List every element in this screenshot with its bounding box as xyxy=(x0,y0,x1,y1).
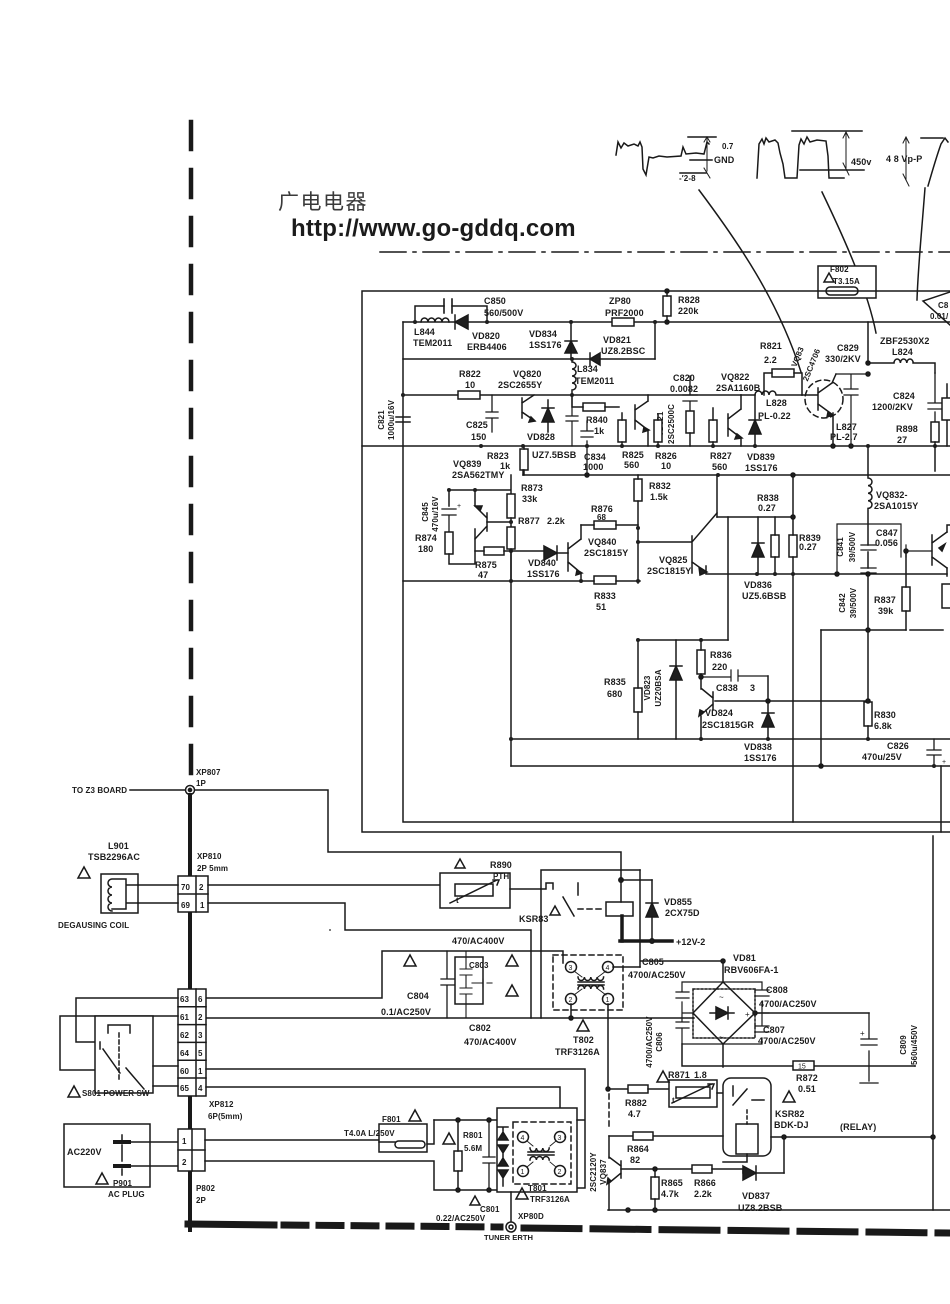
svg-text:P802: P802 xyxy=(196,1184,216,1193)
svg-text:TEM2011: TEM2011 xyxy=(575,376,614,386)
svg-text:1SS176: 1SS176 xyxy=(744,753,777,763)
svg-text:R882: R882 xyxy=(625,1098,647,1108)
capacitor C847 xyxy=(837,524,932,574)
resistor ZP80 xyxy=(612,318,634,326)
svg-text:0.27: 0.27 xyxy=(758,503,776,513)
svg-text:39k: 39k xyxy=(878,606,894,616)
svg-text:69: 69 xyxy=(181,901,191,910)
svg-text:470u/16V: 470u/16V xyxy=(431,496,440,532)
wire y=630 xyxy=(821,629,943,631)
svg-text:60: 60 xyxy=(180,1067,190,1076)
transistor VQ821 xyxy=(635,395,649,446)
svg-text:VQ837: VQ837 xyxy=(599,1159,608,1185)
svg-text:PL-2.7: PL-2.7 xyxy=(830,432,858,442)
svg-text:R871: R871 xyxy=(668,1070,690,1080)
svg-text:0.056: 0.056 xyxy=(875,538,898,548)
svg-text:ZBF2530X2: ZBF2530X2 xyxy=(880,336,929,346)
KSR83 contact xyxy=(541,883,578,895)
inductor L824 xyxy=(868,322,935,373)
svg-text:VQ822: VQ822 xyxy=(721,372,750,382)
svg-text:TUNER ERTH: TUNER ERTH xyxy=(484,1233,533,1242)
svg-text:R840: R840 xyxy=(586,415,608,425)
wire XP807 to relay coil xyxy=(195,790,621,880)
capacitor C806 pair left xyxy=(676,982,723,1044)
wire VD821 to vertical xyxy=(654,322,656,359)
svg-text:C8: C8 xyxy=(938,301,949,310)
svg-text:P901: P901 xyxy=(113,1179,133,1188)
svg-text:PTH: PTH xyxy=(493,872,509,881)
C850 labels xyxy=(484,296,523,318)
svg-text:ZP80: ZP80 xyxy=(609,296,631,306)
capacitor C841 xyxy=(861,545,876,550)
svg-text:0.22/AC250V: 0.22/AC250V xyxy=(436,1214,486,1223)
resistor R864 xyxy=(633,1132,653,1140)
svg-text:220k: 220k xyxy=(678,306,699,316)
svg-text:UZ7.5BSB: UZ7.5BSB xyxy=(532,450,577,460)
resistor R825 xyxy=(618,420,626,442)
svg-text:-′2-8: -′2-8 xyxy=(679,174,696,183)
diode VD820 xyxy=(455,315,468,329)
svg-text:R877: R877 xyxy=(518,516,540,526)
svg-text:68: 68 xyxy=(597,513,607,522)
waveform 1 labels xyxy=(679,142,735,183)
transistor VQ820 xyxy=(522,395,535,422)
emitter rail y=581 xyxy=(403,580,640,582)
resistor R872 xyxy=(793,1061,814,1070)
svg-text:VQ839: VQ839 xyxy=(453,459,482,469)
svg-text:330/2KV: 330/2KV xyxy=(825,354,861,364)
transformer T801 box xyxy=(497,1108,577,1192)
VD81 labels xyxy=(724,953,779,975)
transistor VQ824 xyxy=(699,677,713,739)
svg-text:560: 560 xyxy=(712,462,727,472)
VQ824 base wire y=701 xyxy=(715,700,868,702)
transistor VQ840 xyxy=(568,525,582,580)
VQ839 base wire xyxy=(487,521,511,523)
resistor R877 xyxy=(507,527,515,549)
output rail y=1066 xyxy=(682,1044,915,1066)
svg-text:560: 560 xyxy=(624,460,639,470)
resistor R873 xyxy=(507,494,515,518)
capacitor C842 xyxy=(861,568,876,573)
C805 labels xyxy=(628,957,686,980)
svg-text:560u/450V: 560u/450V xyxy=(910,1024,919,1065)
capacitor C845 xyxy=(442,509,456,532)
svg-text:KSR83: KSR83 xyxy=(519,914,549,924)
waveform 2 trace xyxy=(757,137,844,178)
svg-text:R835: R835 xyxy=(604,677,626,687)
svg-text:C838: C838 xyxy=(716,683,738,693)
relay right wire xyxy=(771,1136,933,1138)
C803 box xyxy=(455,957,483,1004)
svg-text:C821: C821 xyxy=(377,410,386,430)
T801 right side wire xyxy=(565,1120,584,1137)
svg-text:1000: 1000 xyxy=(583,462,603,472)
svg-text:VD855: VD855 xyxy=(664,897,692,907)
svg-text:+: + xyxy=(745,1010,750,1019)
T802 labels xyxy=(577,1020,589,1031)
svg-text:C802: C802 xyxy=(469,1023,491,1033)
+12V-2 thick wire xyxy=(620,939,672,943)
leader curve from waveform 2 xyxy=(822,192,876,333)
svg-text:VD839: VD839 xyxy=(747,452,775,462)
svg-text:C809: C809 xyxy=(899,1035,908,1055)
svg-text:R825: R825 xyxy=(622,450,644,460)
svg-text:2SC1815Y: 2SC1815Y xyxy=(647,566,691,576)
right edge component stub xyxy=(946,384,948,446)
capacitor C801 xyxy=(483,1120,495,1190)
diode VD834 (vertical from rail322 to rail359) xyxy=(565,322,577,359)
svg-text:VD828: VD828 xyxy=(527,432,555,442)
resistor R875 xyxy=(484,547,504,555)
capacitor C826 xyxy=(927,739,941,766)
svg-text:L834: L834 xyxy=(577,364,598,374)
svg-text:2.2k: 2.2k xyxy=(694,1189,713,1199)
inner wire from XP812 row63 xyxy=(206,951,563,998)
svg-text:5: 5 xyxy=(198,1049,203,1058)
svg-text:C801: C801 xyxy=(480,1205,500,1214)
svg-text:47: 47 xyxy=(478,570,488,580)
transistor VQ83 dashed circle xyxy=(805,380,843,418)
capacitor C838 xyxy=(701,670,768,681)
wire y=1120 into T801 xyxy=(434,1119,498,1121)
svg-text:R821: R821 xyxy=(760,341,782,351)
svg-text:TO Z3 BOARD: TO Z3 BOARD xyxy=(72,786,127,795)
capacitor C829 xyxy=(836,374,868,446)
resistor R874 xyxy=(445,532,453,554)
svg-text:10: 10 xyxy=(661,461,671,471)
svg-text:5.6M: 5.6M xyxy=(464,1144,482,1153)
svg-text:R832: R832 xyxy=(649,481,671,491)
transformer T802 xyxy=(553,955,623,1010)
svg-text:t: t xyxy=(456,896,459,905)
main spine thick line xyxy=(188,795,192,1230)
svg-text:C829: C829 xyxy=(837,343,859,353)
svg-text:220: 220 xyxy=(712,662,727,672)
bridge top/bottom wires xyxy=(722,961,724,1067)
waveform 2 reference marks xyxy=(792,131,864,170)
waveform 3 arrow xyxy=(903,137,909,186)
svg-text:T3.15A: T3.15A xyxy=(833,277,860,286)
svg-text:61: 61 xyxy=(180,1013,190,1022)
svg-text:L827: L827 xyxy=(836,422,857,432)
inductor L827 vertical xyxy=(868,446,872,701)
svg-text:39/500V: 39/500V xyxy=(848,531,857,562)
svg-text:TRF3126A: TRF3126A xyxy=(555,1047,600,1057)
svg-text:450v: 450v xyxy=(851,157,871,167)
wire y=640 xyxy=(638,639,728,641)
diode VD855 xyxy=(646,880,658,941)
T801 inner dashed xyxy=(513,1122,571,1184)
VQ825 collector/base wires xyxy=(638,475,717,542)
svg-text:VD836: VD836 xyxy=(744,580,772,590)
secondary rail 2 xyxy=(511,765,950,767)
svg-text:UZ20BSA: UZ20BSA xyxy=(654,669,663,706)
top-right corner fragment xyxy=(923,292,950,325)
inner diode xyxy=(710,1007,734,1019)
S801 internals xyxy=(103,1025,144,1089)
svg-text:1SS176: 1SS176 xyxy=(529,340,562,350)
connector XP810 box xyxy=(178,876,208,912)
svg-text:2SA1015Y: 2SA1015Y xyxy=(874,501,918,511)
svg-text:VQ840: VQ840 xyxy=(588,537,617,547)
svg-text:UZ5.6BSB: UZ5.6BSB xyxy=(742,591,787,601)
svg-text:RBV606FA-1: RBV606FA-1 xyxy=(724,965,779,975)
wire F801 to T801 xyxy=(427,1120,434,1144)
fold dashed vertical line left xyxy=(189,122,194,780)
svg-text:560/500V: 560/500V xyxy=(484,308,523,318)
svg-text:~: ~ xyxy=(719,993,724,1002)
block outline xyxy=(329,929,331,931)
svg-text:PL-0.22: PL-0.22 xyxy=(758,411,791,421)
svg-text:~: ~ xyxy=(719,1033,724,1042)
T801 pins xyxy=(518,1132,529,1143)
inductor L828 xyxy=(741,391,802,395)
svg-text:AC PLUG: AC PLUG xyxy=(108,1190,145,1199)
warning triangles filter xyxy=(404,955,518,996)
svg-text:C806: C806 xyxy=(655,1032,664,1052)
resistor R835 xyxy=(634,688,642,712)
svg-text:1.8: 1.8 xyxy=(694,1070,707,1080)
svg-text:C850: C850 xyxy=(484,296,506,306)
svg-text:3: 3 xyxy=(569,965,573,972)
svg-text:70: 70 xyxy=(181,883,191,892)
XP812 row wires right xyxy=(206,1069,585,1188)
fuse F802 element xyxy=(826,287,858,295)
svg-text:TEM2011: TEM2011 xyxy=(413,338,452,348)
svg-text:2: 2 xyxy=(558,1169,562,1176)
wire R871 to relay xyxy=(717,1092,723,1094)
rail y=322 xyxy=(403,321,950,323)
svg-text:1: 1 xyxy=(606,997,610,1004)
svg-text:F802: F802 xyxy=(830,265,849,274)
spark gap arrows xyxy=(498,1127,508,1186)
zener VD823 xyxy=(670,640,682,739)
svg-text:VD824: VD824 xyxy=(705,708,733,718)
inductor L834 vertical xyxy=(572,359,576,395)
VD855 top wire xyxy=(621,879,652,881)
svg-text:+: + xyxy=(457,503,461,510)
rail y=359 xyxy=(403,358,655,360)
inductor L844 xyxy=(421,318,449,322)
svg-text:51: 51 xyxy=(596,602,606,612)
wire UZ7.5 to rail475 xyxy=(522,470,524,475)
svg-text:VD834: VD834 xyxy=(529,329,557,339)
transistor VQ83 body xyxy=(802,374,836,417)
leader line from waveform 3 xyxy=(917,188,925,300)
svg-text:C845: C845 xyxy=(421,502,430,522)
svg-text:0.51: 0.51 xyxy=(798,1084,816,1094)
P802 row wires xyxy=(205,1140,497,1190)
zener VD821 on rail359 xyxy=(590,353,600,365)
T802 pins xyxy=(566,962,577,973)
svg-text:0.0082: 0.0082 xyxy=(670,384,698,394)
svg-text:2SC1815Y: 2SC1815Y xyxy=(584,548,628,558)
svg-text:T4.0A L/250V: T4.0A L/250V xyxy=(344,1129,395,1138)
svg-text:VQ825: VQ825 xyxy=(659,555,688,565)
svg-text:64: 64 xyxy=(180,1049,190,1058)
svg-text:R873: R873 xyxy=(521,483,543,493)
svg-text:470/AC400V: 470/AC400V xyxy=(452,936,505,946)
svg-text:4 8 Vp-P: 4 8 Vp-P xyxy=(886,154,922,164)
svg-text:2SC2120Y: 2SC2120Y xyxy=(589,1152,598,1192)
transistor VQ822 xyxy=(728,395,742,446)
svg-text:R823: R823 xyxy=(487,451,509,461)
warning triangle degauss xyxy=(78,867,90,878)
zener VD828 xyxy=(542,400,554,432)
AC220V plug box xyxy=(64,1124,150,1187)
svg-text:http://www.go-gddq.com: http://www.go-gddq.com xyxy=(291,215,576,242)
resistor R833 on rail xyxy=(594,576,616,584)
svg-text:2SC2655Y: 2SC2655Y xyxy=(498,380,542,390)
primary box outline xyxy=(362,291,950,832)
svg-text:XP807: XP807 xyxy=(196,768,221,777)
svg-text:VQ832-: VQ832- xyxy=(876,490,908,500)
R871 thermistor box xyxy=(669,1080,717,1107)
svg-text:(RELAY): (RELAY) xyxy=(840,1122,876,1132)
svg-text:1200/2KV: 1200/2KV xyxy=(872,402,913,412)
wires degauss to XP810 xyxy=(138,885,178,903)
R890 labels xyxy=(455,859,465,868)
KSR83 dashed link xyxy=(578,908,604,910)
svg-text:R890: R890 xyxy=(490,860,512,870)
power switch S801 box xyxy=(95,1016,153,1093)
svg-text:T801: T801 xyxy=(528,1184,547,1193)
capacitor between R840 and VQ821 xyxy=(566,395,578,446)
resistor R836 xyxy=(697,650,705,674)
svg-text:+12V-2: +12V-2 xyxy=(676,937,705,947)
wire to XP807 xyxy=(130,789,185,791)
svg-text:39/500V: 39/500V xyxy=(849,587,858,618)
resistor R830 xyxy=(864,702,872,726)
capacitor C825 xyxy=(486,395,498,432)
relay KSR82 xyxy=(723,1078,771,1156)
connector XP812 box xyxy=(178,989,206,1096)
svg-text:KSR82: KSR82 xyxy=(775,1109,805,1119)
svg-text:XP810: XP810 xyxy=(197,852,222,861)
svg-text:33k: 33k xyxy=(522,494,538,504)
output drop to box bottom xyxy=(940,766,942,832)
svg-text:1: 1 xyxy=(521,1169,525,1176)
C802 labels xyxy=(464,1023,517,1047)
svg-text:4: 4 xyxy=(521,1135,525,1142)
svg-text:XP812: XP812 xyxy=(209,1100,234,1109)
T802 windings xyxy=(578,977,604,980)
VQ825 emitter wire y=574 xyxy=(706,566,947,574)
svg-text:ERB4406: ERB4406 xyxy=(467,342,507,352)
VQ832 collector/emitter wires xyxy=(935,446,950,576)
svg-text:0.1/AC250V: 0.1/AC250V xyxy=(381,1007,431,1017)
svg-text:R874: R874 xyxy=(415,533,437,543)
svg-text:6P(5mm): 6P(5mm) xyxy=(208,1112,243,1121)
svg-text:63: 63 xyxy=(180,995,190,1004)
fuse F802 warning triangle xyxy=(824,273,834,282)
right long vertical xyxy=(932,836,934,1210)
svg-text:2P 5mm: 2P 5mm xyxy=(197,864,228,873)
VQ821 rotated labels xyxy=(656,404,676,444)
R890 PTC box xyxy=(440,873,510,908)
svg-text:2: 2 xyxy=(182,1158,187,1167)
svg-text:2CX75D: 2CX75D xyxy=(665,908,700,918)
svg-text:15: 15 xyxy=(798,1064,806,1071)
svg-text:R828: R828 xyxy=(678,295,700,305)
svg-text:R864: R864 xyxy=(627,1144,649,1154)
svg-text:1: 1 xyxy=(198,1067,203,1076)
zener VD837 xyxy=(743,1166,784,1180)
resistor R828 vertical between rails xyxy=(663,296,671,316)
svg-text:62: 62 xyxy=(180,1031,190,1040)
svg-text:2SC2500C: 2SC2500C xyxy=(667,404,676,444)
svg-text:470u/25V: 470u/25V xyxy=(862,752,902,762)
svg-text:R866: R866 xyxy=(694,1178,716,1188)
rail up right side xyxy=(914,1065,916,1067)
svg-text:XP80D: XP80D xyxy=(518,1212,544,1221)
C838 right leg xyxy=(767,676,769,701)
bias resistor under C820 xyxy=(686,411,694,433)
TO Z3 BOARD label xyxy=(72,786,127,795)
waveform 1 trace xyxy=(616,142,709,175)
waveform 1 arrow xyxy=(704,137,710,178)
right edge component stub 2 xyxy=(942,584,950,608)
zener VD836 xyxy=(752,517,764,574)
svg-text:VD837: VD837 xyxy=(742,1191,770,1201)
svg-text:1: 1 xyxy=(200,901,205,910)
svg-text:R822: R822 xyxy=(459,369,481,379)
base drive vertical x=728 xyxy=(727,517,729,640)
waveform 3 label xyxy=(886,154,922,164)
svg-text:0.01/: 0.01/ xyxy=(930,312,949,321)
rail y=1018 xyxy=(206,1017,694,1019)
wire relay bottom xyxy=(723,1154,747,1162)
KSR83 coil box xyxy=(606,902,633,916)
svg-text:1.5k: 1.5k xyxy=(650,492,669,502)
C803 caps xyxy=(460,951,492,1018)
svg-text:AC220V: AC220V xyxy=(67,1147,102,1157)
svg-text:1SS176: 1SS176 xyxy=(745,463,778,473)
svg-text:PRF2000: PRF2000 xyxy=(605,308,644,318)
degaussing coil L901 box xyxy=(101,874,138,913)
svg-text:1000u/16V: 1000u/16V xyxy=(387,399,396,440)
resistor R837 xyxy=(902,587,910,611)
svg-text:3: 3 xyxy=(198,1031,203,1040)
svg-text:2: 2 xyxy=(569,997,573,1004)
resistor R822 xyxy=(458,391,480,399)
VQ83 rotated labels xyxy=(790,345,823,382)
capacitor C824 xyxy=(928,373,942,422)
svg-text:R836: R836 xyxy=(710,650,732,660)
T802 pin wires xyxy=(571,967,640,1089)
svg-text:VD840: VD840 xyxy=(528,558,556,568)
long vertical x=511 xyxy=(510,551,512,766)
inner box outline xyxy=(403,322,950,822)
svg-text:65: 65 xyxy=(180,1084,190,1093)
svg-text:680: 680 xyxy=(607,689,622,699)
svg-text:C820: C820 xyxy=(673,373,695,383)
svg-text:82: 82 xyxy=(630,1155,640,1165)
svg-text:GND: GND xyxy=(714,155,735,165)
wire VD837 up to relay wire xyxy=(783,1137,785,1173)
fuse F801 box xyxy=(379,1124,427,1152)
waveform 1 reference marks xyxy=(680,137,716,173)
svg-text:3: 3 xyxy=(750,683,755,693)
resistor R821 xyxy=(772,369,794,377)
svg-text:T802: T802 xyxy=(573,1035,594,1045)
waveform 2 arrow xyxy=(843,132,849,175)
svg-text:4700/AC250V: 4700/AC250V xyxy=(758,1036,816,1046)
isolation dashes at x=609 xyxy=(608,1094,610,1128)
fuse F802 labels xyxy=(830,265,860,286)
svg-text:VD821: VD821 xyxy=(603,335,631,345)
